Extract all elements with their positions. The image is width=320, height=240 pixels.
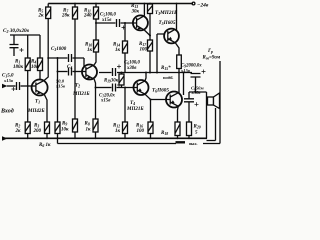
svg-text:240: 240 (83, 14, 92, 19)
svg-text:R12: R12 (113, 124, 120, 129)
wire C7 coupling (96, 87, 112, 89)
wire C2 top feed (10, 34, 40, 36)
capacitor C6 (113, 68, 116, 76)
resistor R10 (94, 40, 99, 52)
node C7 branch (95, 87, 97, 89)
resistor R20 (187, 122, 192, 136)
resistor R9 (73, 119, 78, 132)
svg-text:30к: 30к (131, 10, 140, 15)
node T1 base junction (27, 85, 29, 87)
svg-text:х15в: х15в (180, 68, 190, 73)
svg-text:х30в: х30в (126, 66, 137, 71)
capacitor C1 (17, 82, 20, 90)
transistor T4 (134, 80, 149, 95)
wire T1 emitter to R3 (44, 95, 47, 122)
svg-text:R2: R2 (15, 124, 20, 129)
speaker (208, 97, 214, 105)
resistor R14 (124, 23, 126, 41)
svg-text:180к: 180к (13, 65, 24, 70)
resistor R16 (148, 122, 153, 134)
svg-text:R9: R9 (62, 122, 67, 127)
svg-text:вых.: вых. (189, 141, 198, 146)
svg-text:х15в: х15в (55, 84, 65, 89)
wire T5 collector to rail (176, 4, 178, 31)
node R19 bus junction (121, 72, 123, 74)
resistor R12 (124, 88, 126, 123)
svg-text:Т6П605: Т6П605 (152, 88, 169, 94)
wire output node (189, 91, 207, 93)
svg-text:1к: 1к (115, 129, 121, 134)
ground (176, 141, 186, 143)
resistor R18 (175, 122, 180, 136)
svg-text:х15в: х15в (3, 78, 13, 83)
svg-text:R4: R4 (31, 60, 36, 65)
svg-text:1к: 1к (115, 48, 121, 53)
node R17 bus junction (149, 72, 151, 74)
resistor R17 (148, 40, 153, 51)
wire T4 emitter to T6 base (145, 94, 170, 99)
svg-text:МП21Б: МП21Б (72, 92, 90, 97)
svg-text:R14: R14 (113, 43, 120, 48)
svg-text:подб.: подб. (163, 75, 174, 80)
svg-text:Т1: Т1 (35, 99, 40, 105)
resistor R4 (39, 35, 41, 58)
wire R16 lead (150, 100, 152, 123)
capacitor C5 (117, 19, 120, 27)
wire feedback right riser (219, 61, 221, 144)
node C5 branch (95, 22, 97, 24)
capacitor C4 (69, 68, 72, 76)
svg-text:1к: 1к (87, 48, 93, 53)
svg-text:R8: R8 (85, 122, 90, 127)
svg-text:28к: 28к (61, 14, 70, 19)
wire T5 base feed (157, 34, 164, 73)
resistor R1 (27, 35, 29, 58)
wire T4 collector (145, 73, 146, 81)
svg-text:R18: R18 (161, 131, 168, 136)
svg-text:10к: 10к (31, 65, 39, 70)
wire feedback bottom line (58, 143, 221, 145)
node R14 top junction (124, 22, 126, 24)
svg-text:Т3МП21Б: Т3МП21Б (155, 10, 178, 16)
wire output bus (99, 72, 192, 74)
svg-text:х15в: х15в (100, 99, 111, 104)
svg-text:100: 100 (140, 48, 148, 53)
svg-text:Т4: Т4 (130, 100, 135, 106)
svg-text:R6 1к: R6 1к (39, 143, 51, 148)
capacitor C8 (184, 92, 194, 122)
capacitor C9 (191, 74, 201, 93)
wire C1 to T1 base (21, 85, 36, 87)
svg-text:х30в: х30в (191, 90, 201, 95)
svg-text:200: 200 (33, 129, 42, 134)
svg-text:100: 100 (137, 129, 145, 134)
svg-text:R1: R1 (15, 60, 20, 65)
svg-text:С6100,0: С6100,0 (124, 61, 141, 66)
wire T3 collector to rail (143, 4, 145, 16)
resistor R5 (47, 4, 49, 8)
svg-text:Т5П605: Т5П605 (159, 20, 176, 26)
node R6 top junction (57, 57, 59, 59)
svg-text:R3: R3 (34, 124, 39, 129)
node -24v terminal (192, 2, 195, 5)
svg-text:R1930к: R1930к (104, 79, 119, 84)
resistor R7 (74, 4, 76, 8)
wire input to C1 (7, 85, 16, 87)
svg-text:R13: R13 (131, 4, 138, 9)
svg-text:−24в: −24в (197, 3, 209, 9)
svg-text:Т2: Т2 (75, 83, 80, 89)
svg-text:С31000: С31000 (51, 47, 67, 52)
node R12 junction (124, 87, 126, 89)
resistor R2 (25, 122, 30, 134)
wire T6 collector stub (183, 73, 185, 96)
svg-text:Rзв=9ом: Rзв=9ом (203, 56, 221, 61)
resistor R19 (121, 73, 123, 75)
svg-text:С4: С4 (67, 65, 72, 70)
svg-text:R10: R10 (85, 43, 92, 48)
node C3 branch (47, 57, 49, 59)
wire C3 coupling (48, 57, 67, 59)
svg-text:2к: 2к (15, 129, 22, 134)
wire bottom ground rail (2, 137, 207, 139)
wire T2 emitter to R8 (94, 79, 95, 119)
svg-text:10к: 10к (61, 128, 69, 133)
node input terminal arrow (2, 84, 8, 88)
wire speaker feed (206, 92, 208, 139)
svg-text:R17: R17 (139, 42, 147, 47)
svg-text:R15*: R15* (161, 66, 171, 71)
svg-text:R16: R16 (136, 124, 143, 129)
transistor T2 (82, 65, 97, 80)
svg-text:МП21Б: МП21Б (126, 107, 144, 112)
resistor R15 (177, 55, 182, 69)
svg-text:С2 30,0х20в: С2 30,0х20в (3, 28, 30, 34)
svg-text:2к: 2к (38, 14, 45, 19)
resistor R11 (95, 4, 97, 8)
resistor R8 (93, 119, 98, 132)
wire top supply rail (48, 3, 193, 5)
resistor R3 (45, 122, 50, 134)
wire T3 emitter join (144, 30, 150, 35)
transistor T1 (32, 80, 48, 96)
wire T6 emitter to R18 (177, 106, 180, 122)
wire speaker return (207, 108, 216, 141)
transistor T6 (166, 92, 182, 108)
node input ground arrow (2, 136, 8, 140)
wire C5 coupling (96, 22, 116, 24)
svg-text:Гр: Гр (207, 49, 213, 54)
capacitor C3 (69, 54, 72, 62)
capacitor C2 (10, 35, 19, 56)
svg-text:МП42Б: МП42Б (27, 109, 45, 114)
transistor T5 (164, 29, 179, 44)
svg-text:х15в: х15в (101, 18, 112, 23)
svg-text:R20: R20 (194, 125, 201, 130)
svg-text:1к: 1к (86, 128, 92, 133)
wire C4 coupling (58, 71, 68, 73)
transistor T3 (133, 15, 148, 30)
svg-text:С5100,0: С5100,0 (100, 13, 117, 18)
svg-text:Вход: Вход (0, 108, 14, 115)
node T2 base bias junction (74, 71, 76, 73)
resistor R6 (57, 58, 59, 122)
wire R15 to T6 collector (178, 73, 180, 94)
resistor R13 (149, 3, 151, 6)
capacitor C7 (113, 84, 116, 92)
wire T5 emitter to R15 (175, 43, 179, 55)
